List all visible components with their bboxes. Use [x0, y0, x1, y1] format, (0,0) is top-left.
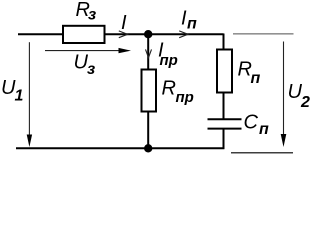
- resistor Rp (vertical box): [217, 50, 232, 93]
- svg-text:R: R: [162, 78, 176, 100]
- arrow In (open arrowhead on wire): [179, 31, 188, 38]
- svg-text:п: п: [251, 70, 261, 87]
- svg-text:I: I: [121, 12, 127, 34]
- svg-text:C: C: [244, 112, 259, 134]
- arrow I (open arrowhead on wire): [119, 31, 128, 38]
- wire bottom rail: [16, 147, 224, 149]
- wire middle branch lower: [147, 112, 149, 149]
- arrow Ipr (open arrowhead on middle wire, pointing down): [146, 49, 152, 57]
- node B junction dot bottom: [144, 144, 152, 152]
- voltage line U3 (measurement arrow under R3): [45, 50, 120, 52]
- capacitor Cp bottom plate: [208, 128, 242, 130]
- svg-text:п: п: [187, 16, 197, 33]
- svg-text:з: з: [87, 61, 95, 78]
- svg-text:2: 2: [300, 94, 310, 111]
- terminal line top-right (gray): [233, 33, 294, 35]
- wire top middle: [105, 33, 224, 35]
- resistor Rpr (vertical box, middle branch): [142, 70, 157, 112]
- terminal line bottom-right (dark gray): [231, 152, 293, 154]
- svg-text:пр: пр: [160, 52, 178, 69]
- wire top-left input: [18, 33, 64, 35]
- wire middle branch upper: [147, 34, 149, 70]
- svg-text:з: з: [88, 7, 96, 24]
- svg-text:п: п: [259, 121, 269, 138]
- svg-text:пр: пр: [176, 89, 194, 106]
- wire Rp to capacitor: [223, 93, 225, 120]
- voltage line U1 (left measurement arrow): [28, 42, 30, 136]
- voltage line U2 (right measurement arrow): [283, 42, 285, 136]
- resistor R3 (series, horizontal box): [63, 26, 105, 43]
- capacitor Cp top plate: [208, 118, 242, 120]
- node A junction dot top: [144, 30, 152, 38]
- wire capacitor to bottom rail: [223, 129, 225, 149]
- wire right corner down: [223, 34, 225, 51]
- svg-text:1: 1: [15, 88, 24, 105]
